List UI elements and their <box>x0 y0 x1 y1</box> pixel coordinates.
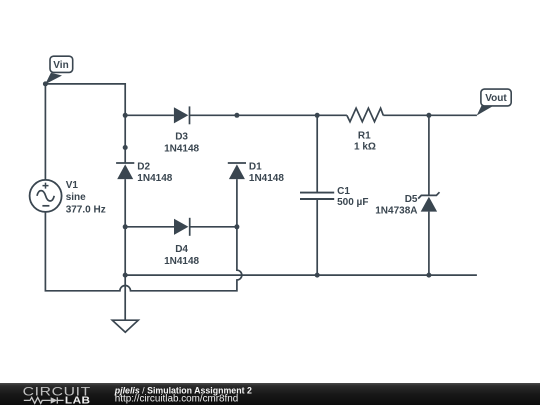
wire Vin node down to V1 top <box>44 84 46 180</box>
diode D2 <box>116 162 173 184</box>
diode D4 <box>164 218 199 267</box>
wire V1 bottom, along bottom with hop over ground stem, up right side with hop over ground rail, to D1 anode <box>45 179 241 291</box>
svg-text:D1: D1 <box>249 162 262 173</box>
svg-text:377.0 Hz: 377.0 Hz <box>66 205 106 216</box>
node dot D3 input <box>123 113 128 118</box>
svg-text:D2: D2 <box>137 162 150 173</box>
svg-text:http://circuitlab.com/cmr8fnd: http://circuitlab.com/cmr8fnd <box>115 394 238 405</box>
node dot D2 segment <box>123 145 128 150</box>
footer bar <box>0 383 540 405</box>
svg-text:1N4148: 1N4148 <box>137 173 172 184</box>
wire C1 top lead <box>316 115 318 192</box>
svg-text:1N4148: 1N4148 <box>164 143 199 154</box>
voltage source V1 <box>30 180 106 216</box>
node Vin flag <box>45 56 72 84</box>
svg-text:C1: C1 <box>337 186 350 197</box>
wire left column D2 anode to ground rail and ground stem <box>124 179 126 320</box>
wire D5 top lead <box>428 115 430 195</box>
node dot ground stem <box>123 273 128 278</box>
svg-text:LAB: LAB <box>65 395 91 405</box>
svg-text:R1: R1 <box>358 130 371 141</box>
wire R1 right lead to Vout tail <box>383 114 477 116</box>
node dot Vin <box>43 81 48 86</box>
svg-text:1N4148: 1N4148 <box>249 173 284 184</box>
ground <box>112 320 138 332</box>
svg-text:Vin: Vin <box>53 60 68 71</box>
wire D4 row right lead <box>190 226 237 228</box>
node dot D4 anode <box>123 224 128 229</box>
resistor R1 <box>347 108 383 152</box>
diode D1 <box>228 162 285 184</box>
svg-text:V1: V1 <box>66 180 79 191</box>
svg-text:500 µF: 500 µF <box>337 197 368 208</box>
zener diode D5 <box>375 192 439 216</box>
svg-text:D5: D5 <box>405 194 418 205</box>
wire left column D2 cathode segment <box>124 115 126 163</box>
wire ground rail <box>125 274 477 276</box>
wire top-left L from Vin node to D3 row <box>45 84 125 115</box>
wire D4 row left lead <box>125 226 174 228</box>
capacitor C1 <box>300 186 368 208</box>
svg-text:1N4148: 1N4148 <box>164 256 199 267</box>
node dot C1 top <box>315 113 320 118</box>
wire D3 row left lead <box>125 114 174 116</box>
svg-text:D3: D3 <box>175 132 188 143</box>
node dot Vout <box>426 113 431 118</box>
svg-text:1N4738A: 1N4738A <box>375 206 417 217</box>
node dot C1 bottom <box>315 273 320 278</box>
svg-text:1 kΩ: 1 kΩ <box>354 141 376 152</box>
node Vout flag <box>477 89 511 115</box>
wire D3 output to R1 left lead <box>190 114 347 116</box>
svg-text:sine: sine <box>66 192 86 203</box>
node dot D4 cathode <box>234 224 239 229</box>
node dot D3 output <box>234 113 239 118</box>
svg-text:Vout: Vout <box>485 93 507 104</box>
wire C1 bottom lead <box>316 200 318 276</box>
diode D3 <box>164 106 199 154</box>
footer CircuitLab logo <box>23 384 91 405</box>
node dot D5 bottom <box>426 273 431 278</box>
wire D5 bottom lead <box>428 212 430 276</box>
svg-text:D4: D4 <box>175 244 188 255</box>
